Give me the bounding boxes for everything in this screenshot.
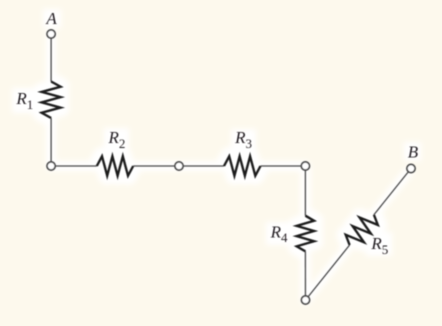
resistor R3 [224,156,261,175]
resistor R1 [42,82,61,119]
node middle [175,162,183,170]
wire R2 to middle node [133,165,175,167]
wire middle node to R3 [183,165,224,167]
wire bottom node to R5 [308,245,349,297]
wire R5 to node B [374,172,408,215]
wire left node to R2 [55,165,97,167]
wire right node to R4 [304,170,306,216]
node A [47,30,55,38]
resistor R2 [97,156,133,175]
node B [407,164,415,172]
wire A to R1 [50,38,52,81]
svg-text:B: B [408,142,419,161]
wire R1 to left node [50,118,52,162]
wire R4 to bottom node [304,251,306,296]
resistor R5 [346,215,378,245]
node left [47,162,55,170]
svg-text:A: A [45,9,57,28]
wire R3 to right node [261,165,302,167]
node bottom [301,296,309,304]
resistor R4 [297,216,314,252]
node right [301,162,309,170]
